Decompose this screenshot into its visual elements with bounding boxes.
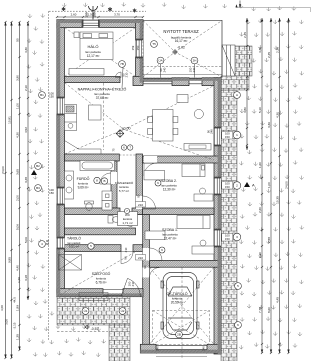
svg-text:159: 159 (131, 45, 135, 50)
svg-text:2,48: 2,48 (267, 237, 271, 243)
window west furdo (57, 188, 64, 204)
svg-text:10,35: 10,35 (275, 196, 279, 204)
property boundary dashed line (left) (48, 11, 50, 340)
exterior wall south szelfogo east part (123, 289, 143, 297)
svg-text:150: 150 (225, 185, 230, 189)
svg-text:2,36: 2,36 (275, 47, 279, 53)
kitchen wall cabinets (65, 105, 77, 131)
wall szoba1/garage (150, 260, 222, 267)
svg-text:2,45: 2,45 (267, 52, 271, 58)
svg-text:6,76 m²: 6,76 m² (96, 280, 107, 284)
svg-text:90: 90 (143, 265, 147, 269)
diagonals nappali (65, 83, 215, 160)
window gap east szoba1 (214, 230, 221, 246)
entry path to street (109, 325, 130, 361)
svg-text:5,06: 5,06 (15, 224, 19, 230)
svg-text:90: 90 (137, 194, 141, 198)
svg-text:4,40: 4,40 (15, 265, 19, 271)
vanity furdo (65, 171, 74, 199)
wall nappali/furdo (65, 154, 120, 161)
window north halo (83, 20, 99, 27)
property boundary dashed line (top) (49, 10, 146, 12)
entry steps (79, 293, 108, 297)
svg-text:-2,15: -2,15 (12, 322, 16, 329)
svg-text:✱: ✱ (132, 8, 137, 15)
door gap szoba1 (143, 248, 150, 261)
exterior wall north (halo) (57, 20, 143, 28)
garage apron edge (156, 354, 207, 357)
wall outer face band szelfogo south (57, 293, 143, 296)
dimension line left 2 (11, 22, 13, 358)
corridor threshold dashed (119, 154, 136, 156)
label nappali (78, 87, 127, 101)
plant circle (194, 109, 203, 118)
car garage (161, 273, 199, 339)
svg-text:Ü2: Ü2 (121, 309, 125, 313)
marker 7c (128, 145, 133, 150)
door arc tarolo (121, 252, 133, 264)
svg-text:TÁROLÓ: TÁROLÓ (67, 236, 81, 241)
svg-text:9,69 m²: 9,69 m² (78, 186, 89, 190)
svg-text:✱: ✱ (107, 7, 112, 14)
svg-text:1,89: 1,89 (15, 305, 19, 311)
bed szoba1 (177, 216, 210, 229)
kitchen island (89, 105, 101, 120)
terrace side steps (222, 45, 235, 76)
svg-text:210: 210 (138, 203, 143, 207)
svg-text:210: 210 (124, 247, 128, 252)
desk szoba1 (192, 246, 214, 254)
interior wall corridor/szoba2 (136, 154, 143, 215)
svg-text:2H: 2H (193, 59, 197, 63)
dimension line right 2 (261, 18, 263, 353)
svg-text:2,10: 2,10 (24, 85, 28, 91)
chairs dining (148, 117, 153, 123)
nightstand halo (74, 32, 79, 38)
svg-text:4,30: 4,30 (24, 47, 28, 53)
bed szoba2 (182, 164, 205, 177)
svg-text:Ü1: Ü1 (84, 309, 88, 313)
marker 7 (124, 208, 129, 213)
window halo east (136, 40, 143, 57)
svg-text:210: 210 (125, 72, 129, 77)
marker U2 (119, 308, 126, 315)
marker UA (157, 57, 164, 64)
label szoba2 (161, 179, 177, 192)
toilet furdo (85, 201, 94, 204)
window gap east nappali (214, 128, 221, 145)
garage centerline (181, 267, 183, 358)
paved walkway right side (brick hatch) (221, 90, 237, 361)
svg-text:-0,02: -0,02 (177, 46, 185, 50)
wall outer face band west (57, 20, 60, 297)
svg-text:B2: B2 (36, 164, 40, 168)
svg-text:240: 240 (156, 346, 160, 351)
wall halo/nappali (65, 77, 121, 83)
svg-text:A: A (252, 183, 255, 188)
door gap furdo (V2) (111, 172, 117, 184)
svg-text:1,71 m²: 1,71 m² (122, 221, 132, 225)
label wc (118, 212, 138, 226)
svg-text:60: 60 (46, 242, 50, 246)
car dashed clearance zone (153, 311, 210, 345)
tv board (184, 144, 211, 151)
door arc garage (150, 268, 160, 278)
svg-text:ÜA: ÜA (158, 59, 162, 63)
dimension line right 3 (270, 18, 272, 353)
marker U1 (82, 308, 89, 315)
marker 7B (119, 61, 126, 68)
svg-text:3,65: 3,65 (15, 169, 19, 175)
level marker terrace (173, 50, 178, 55)
svg-text:1,60: 1,60 (258, 162, 262, 168)
terrace wall pier (172, 78, 189, 86)
svg-text:4,30: 4,30 (258, 47, 262, 53)
svg-text:3,90: 3,90 (15, 75, 19, 81)
exterior wall west (57, 20, 65, 297)
svg-text:3,18: 3,18 (24, 275, 28, 281)
gate/tree symbol on boundary (89, 6, 98, 20)
marker 9 (155, 180, 161, 186)
wall szoba2/szoba1 (143, 208, 215, 215)
window gap west furdo (57, 188, 65, 204)
marker B3 (35, 185, 42, 192)
svg-text:5,77 m²: 5,77 m² (119, 189, 129, 193)
svg-text:150: 150 (225, 135, 230, 139)
svg-text:NYITOTT TERASZ: NYITOTT TERASZ (163, 29, 199, 34)
diagonals garage (150, 267, 215, 344)
door arc entry (121, 278, 140, 296)
desk szoba2 (194, 194, 213, 201)
wall tarolo/szelfogo east part (133, 245, 143, 252)
svg-text:5,06: 5,06 (24, 237, 28, 243)
svg-text:8,60: 8,60 (267, 307, 271, 313)
garage south wall east pier (207, 344, 221, 353)
svg-text:3,48: 3,48 (24, 177, 28, 183)
dimension line left 3 (19, 22, 21, 350)
svg-text:B3: B3 (36, 186, 40, 190)
window gap west tarolo (57, 238, 65, 248)
window jambs (57, 20, 221, 250)
marker 4 (39, 241, 46, 248)
svg-text:2B: 2B (177, 333, 181, 337)
svg-text:3,00: 3,00 (0, 305, 4, 311)
svg-text:24,00: 24,00 (1, 166, 5, 174)
marker 1 (233, 131, 241, 139)
svg-text:GK.TÁROLÓ: GK.TÁROLÓ (167, 291, 188, 296)
paved corner top-right (235, 46, 252, 76)
dimension line right 4 (279, 18, 281, 353)
entry paving pad (57, 297, 130, 325)
window gap west nappali (57, 98, 65, 114)
door leader halo (122, 68, 123, 89)
svg-text:240: 240 (192, 67, 196, 72)
marker stems UA 2H (161, 64, 195, 78)
svg-text:HÁLÓ: HÁLÓ (88, 44, 99, 49)
wall furdo/wc row (65, 208, 121, 215)
wardrobe szoba1 (145, 231, 165, 240)
svg-text:SZOBA 2.: SZOBA 2. (161, 179, 177, 183)
marker 6c (121, 145, 126, 150)
marker T5 (151, 41, 158, 48)
svg-text:9,85: 9,85 (7, 257, 11, 263)
label terasz (163, 29, 199, 43)
svg-text:5,10: 5,10 (258, 107, 262, 113)
svg-text:210: 210 (138, 256, 143, 260)
door gap garage (143, 268, 150, 278)
window gap east szoba2 (214, 178, 221, 194)
svg-text:3,70: 3,70 (114, 13, 120, 17)
label garage (167, 291, 188, 305)
dim sz1 door (136, 255, 146, 261)
label szoba1 (162, 228, 178, 241)
dimension line right 5 (288, 18, 290, 353)
svg-text:2,20: 2,20 (258, 207, 262, 213)
bed halo (80, 32, 113, 60)
black triangle marker west (31, 170, 37, 175)
door arc halo (116, 72, 122, 78)
svg-text:1,60: 1,60 (17, 277, 21, 283)
window east nappali (214, 128, 221, 145)
label kozlekedo (115, 180, 134, 193)
exterior wall east (214, 78, 221, 354)
window east szoba1 (214, 230, 221, 246)
svg-text:90: 90 (124, 256, 128, 260)
svg-text:12,17 m²: 12,17 m² (87, 54, 100, 58)
door arc szoba2 north (144, 163, 157, 176)
svg-text:3,00: 3,00 (5, 319, 9, 325)
marker 3 (233, 233, 241, 241)
terrace outline (143, 20, 222, 77)
marker 5t (88, 243, 94, 249)
terrace door 2H opening (189, 79, 202, 84)
svg-text:44,5: 44,5 (13, 297, 17, 303)
svg-text:SZOBA 1.: SZOBA 1. (162, 228, 178, 232)
dimension line left outermost (5, 22, 7, 358)
svg-text:24,00: 24,00 (284, 181, 288, 189)
kitchen L-counter (65, 131, 102, 155)
door arc szoba1 (150, 248, 163, 261)
door arc furdo (100, 173, 111, 184)
svg-text:7B: 7B (120, 62, 124, 66)
svg-text:50: 50 (15, 38, 19, 42)
svg-text:37,66 m²: 37,66 m² (96, 96, 109, 100)
svg-text:KÖZLEKEDŐ: KÖZLEKEDŐ (115, 180, 134, 185)
label tarolo (67, 236, 81, 249)
dimension line right 1 (246, 18, 248, 150)
svg-text:150: 150 (49, 95, 54, 99)
wall wc corner (132, 208, 143, 215)
sideboard north (177, 95, 188, 103)
svg-text:12,30 m²: 12,30 m² (163, 188, 176, 192)
marker 9b (159, 247, 165, 253)
svg-text:2,45: 2,45 (243, 32, 247, 38)
wall outer face band terrace south (143, 78, 221, 81)
wall outer face band east (218, 78, 221, 354)
svg-text:A: A (236, 93, 238, 97)
svg-text:FÜRDŐ: FÜRDŐ (77, 176, 90, 181)
svg-text:10,81: 10,81 (7, 116, 11, 124)
wall nappali/szoba2 (143, 156, 222, 163)
svg-text:3,80: 3,80 (243, 107, 247, 113)
entry door opening (103, 290, 123, 296)
garage door (156, 345, 207, 349)
svg-text:210: 210 (131, 281, 135, 286)
wardrobe szoba2 (144, 170, 165, 180)
terrace sliding door (143, 79, 172, 84)
svg-text:1,00: 1,00 (15, 103, 19, 109)
svg-text:1,35: 1,35 (15, 334, 19, 340)
svg-text:1,90: 1,90 (258, 252, 262, 258)
svg-text:7,75: 7,75 (258, 307, 262, 313)
label szelfogo (92, 271, 111, 284)
window gap north halo (83, 20, 99, 28)
diagonals halo (65, 28, 136, 77)
diagonals terrace (143, 21, 222, 78)
black triangle marker east A (244, 182, 250, 187)
svg-text:NAPPALI+KONYHA+ÉTKEZŐ: NAPPALI+KONYHA+ÉTKEZŐ (78, 87, 127, 92)
marker 2B (176, 331, 183, 338)
window gap halo east (136, 40, 144, 57)
door gap szoba2 sw (136, 196, 143, 209)
svg-text:-0,57: -0,57 (91, 327, 99, 331)
window west nappali (57, 98, 64, 114)
exterior wall south szelfogo west part (57, 289, 103, 297)
door arc szoba2 sw (143, 196, 156, 209)
marker 8 (94, 177, 100, 183)
left edge lower labels (0, 277, 21, 330)
svg-text:SZÉLFOGÓ: SZÉLFOGÓ (92, 271, 111, 276)
short line top right corner (239, 1, 241, 9)
dining table (153, 110, 174, 142)
konyha zone divider dashed (103, 83, 105, 150)
svg-text:2,00: 2,00 (15, 195, 19, 201)
window east szoba2 (214, 178, 221, 194)
wall outer face band halo east (140, 23, 143, 83)
svg-text:±0,00: ±0,00 (122, 127, 131, 131)
wall junction halo corner (133, 77, 143, 86)
wall wc/tarolo (65, 228, 136, 235)
door arc wc (120, 215, 132, 227)
svg-text:1,00: 1,00 (267, 182, 271, 188)
marker A (234, 92, 241, 99)
marker 6 (235, 322, 242, 329)
wall outer face band garage south (140, 350, 221, 353)
svg-text:150: 150 (49, 191, 54, 195)
wall outer face band north (57, 20, 143, 23)
svg-text:2,60: 2,60 (71, 13, 77, 17)
svg-text:20,59 m²: 20,59 m² (171, 301, 184, 305)
svg-text:4,52: 4,52 (24, 127, 28, 133)
svg-text:4,45: 4,45 (275, 297, 279, 303)
svg-text:240: 240 (163, 67, 167, 72)
top dimension line (57, 16, 143, 18)
marker 2 (233, 182, 241, 190)
svg-text:240: 240 (202, 346, 206, 351)
svg-text:150: 150 (93, 12, 97, 17)
dim sz2 door (136, 202, 146, 208)
wall tarolo/szelfogo (65, 245, 122, 252)
label furdo (77, 176, 90, 190)
window west tarolo (57, 238, 64, 248)
svg-text:5,51 m²: 5,51 m² (69, 245, 79, 249)
door gap szoba2 north (144, 156, 157, 163)
bathtub furdo (80, 161, 115, 171)
svg-text:12,47 m²: 12,47 m² (164, 237, 177, 241)
svg-text:3,36: 3,36 (267, 122, 271, 128)
terrace eaves dashed line (143, 65, 222, 67)
marker B2 (35, 163, 42, 170)
dresser halo (69, 69, 104, 76)
toilet wc (108, 216, 113, 224)
dimension chain labels (1, 32, 288, 340)
wall furdo/kozlekedo (111, 161, 117, 208)
svg-text:4,30: 4,30 (15, 132, 19, 138)
svg-text:75: 75 (112, 148, 116, 152)
diagonal szelfogo dashed (58, 252, 135, 296)
wall east of halo (136, 20, 144, 83)
svg-text:B1: B1 (40, 93, 44, 97)
utility line top right (236, 7, 310, 12)
marker 5 (235, 283, 242, 290)
dimension line left 4 (27, 22, 29, 300)
wall garage west (143, 215, 150, 345)
svg-text:150: 150 (85, 12, 89, 17)
svg-text:✱: ✱ (61, 6, 66, 13)
svg-text:150: 150 (136, 45, 140, 50)
svg-text:T5: T5 (152, 42, 156, 46)
washer dryer (102, 191, 112, 201)
garage south wall west pier (140, 344, 156, 353)
label halo (85, 44, 101, 58)
svg-text:B: B (103, 179, 105, 183)
svg-text:4,30: 4,30 (275, 112, 279, 118)
marker 2H (191, 57, 198, 64)
svg-text:16,17 m²: 16,17 m² (175, 39, 188, 43)
svg-text:240: 240 (209, 129, 213, 134)
svg-text:150: 150 (225, 237, 230, 241)
marker B1 (39, 92, 46, 99)
doormat szelfogo (59, 255, 82, 271)
terrace wall east segment (202, 78, 221, 86)
